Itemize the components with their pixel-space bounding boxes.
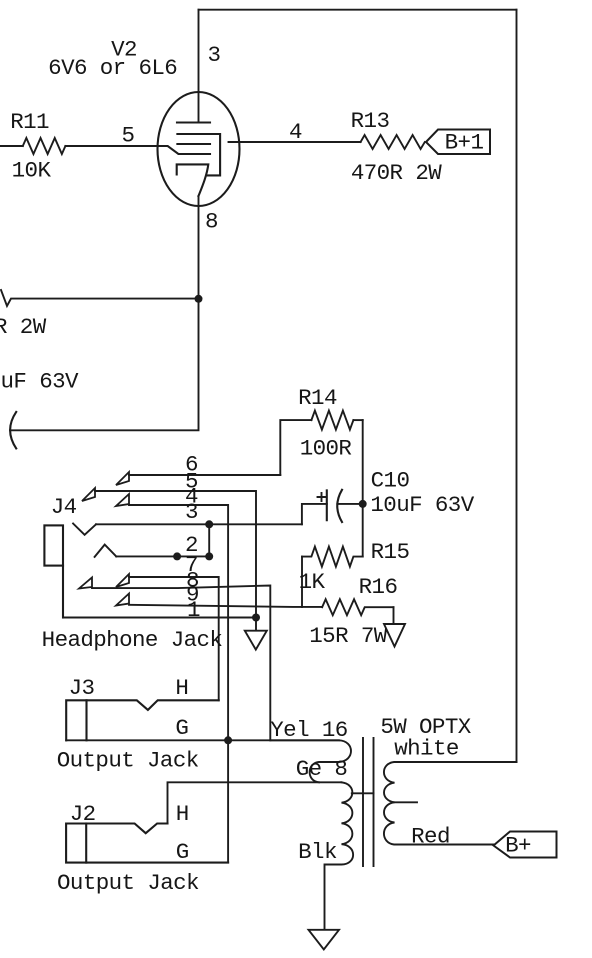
wire pin4 to R13 [229,141,361,143]
svg-text:R16: R16 [359,574,398,600]
capacitor C10 plus sign [318,493,326,501]
wire line3 riser to C10 [302,504,327,524]
svg-text:R14: R14 [298,385,337,411]
resistor R16 [322,599,393,615]
svg-text:J2: J2 [70,801,96,827]
wire ground bus and Yel 16 lead [66,739,339,741]
wire J2 tip riser to OPTX Ge 8 tap [168,782,342,823]
svg-text:3: 3 [185,499,198,525]
transformer OPTX secondary [384,762,517,845]
svg-text:Output Jack: Output Jack [57,748,199,774]
svg-text:B+1: B+1 [445,130,484,156]
node line2 left [173,552,181,560]
tube V2 plate [177,121,210,123]
wire right rail down to OPTX white lead [516,10,518,762]
wire contact6 riser to R14 [280,420,311,475]
contact 5 [82,488,95,501]
ground OPTX [309,930,340,950]
svg-text:H: H [176,801,189,827]
svg-text:G: G [175,715,188,741]
capacitor C10 curved plate [337,490,342,522]
capacitor C10 plus plate [326,490,328,520]
svg-text:C10: C10 [371,468,410,494]
svg-text:J4: J4 [51,494,77,520]
svg-text:470R 2W: 470R 2W [351,160,442,186]
resistor R14 [311,411,353,430]
wire contact 6 [129,474,280,476]
svg-text:15R 7W: 15R 7W [309,623,388,649]
transformer OPTX core [363,738,374,866]
node ground junction [252,614,260,622]
svg-text:R 2W: R 2W [0,314,47,340]
svg-text:Blk: Blk [298,839,337,865]
wire right rail R14-C10-R15 [362,420,364,556]
node cathode junction [195,295,203,303]
ground J4 [245,631,267,650]
svg-text:R15: R15 [371,539,410,565]
wire contact 5 to ground [95,491,256,631]
wire line9 to R16 [129,605,322,607]
svg-text:1: 1 [187,597,200,623]
connector J4 body [44,525,63,565]
contact 7 [116,574,129,587]
resistor R11 [23,138,66,154]
node line3 tap [205,520,213,528]
svg-text:3: 3 [208,42,221,68]
svg-text:white: white [394,736,459,762]
wire top rail [199,9,517,11]
tube V2 grid line [177,143,210,145]
transformer OPTX secondary tap stub [395,801,418,803]
svg-text:5: 5 [122,122,135,148]
svg-text:8: 8 [205,209,218,235]
svg-text:Yel 16: Yel 16 [270,717,348,743]
svg-text:Red: Red [411,824,450,850]
wire contact 8 to ground bus [92,586,270,741]
svg-text:1K: 1K [299,569,326,595]
svg-text:10uF 63V: 10uF 63V [370,492,474,518]
wire line 3 to C10 [96,523,302,525]
svg-text:100R: 100R [300,436,352,462]
tube V2 screen grid [177,134,220,175]
svg-text:uF 63V: uF 63V [1,369,80,395]
contact 6 [116,472,129,485]
svg-text:J3: J3 [69,675,95,701]
svg-text:6V6 or 6L6: 6V6 or 6L6 [48,55,177,81]
node C10 output [359,500,367,508]
wire sleeve line 1 [63,617,256,619]
wire line3 to line2 tap [208,524,210,556]
net tag B+ [494,832,557,858]
svg-text:R13: R13 [351,108,390,134]
tube V2 cathode [177,164,209,196]
node line2 right [205,552,213,560]
connector J2 [66,824,228,863]
clipped capacitor plate at left edge [10,412,16,449]
svg-text:Headphone Jack: Headphone Jack [42,627,223,653]
svg-text:R11: R11 [10,109,49,135]
contact 8 [79,578,92,589]
wire contact 7 to J3 tip [129,577,219,700]
contact 2 tip [95,545,117,557]
wire R14 right to rail [353,419,362,421]
svg-text:10K: 10K [12,158,52,184]
resistor R13 [361,135,425,149]
tube V2 envelope [158,92,240,206]
wire left edge to R11 [0,145,23,147]
svg-text:H: H [175,675,188,701]
net tag B+1 [426,130,490,155]
contact 3 ring [73,524,96,535]
contact 9 [116,594,129,606]
connector J3 [66,700,219,740]
clipped resistor end at left edge [1,290,199,306]
transformer OPTX primary-core stub [352,792,374,794]
contact 4 [116,494,129,506]
wire contact 4 to output jack grounds [129,505,228,863]
svg-text:B+: B+ [505,833,531,859]
ground R16 [393,607,395,624]
wire plate pin3 riser [198,10,200,123]
svg-text:G: G [176,839,189,865]
transformer OPTX primary bumps [325,782,354,930]
node J3 ground [224,736,232,744]
transformer OPTX primary top loop [270,740,351,782]
wire R11 to pin5 [65,145,158,147]
svg-text:Ge 8: Ge 8 [296,756,348,782]
wire R15 left rail [301,557,303,607]
wire cathode stem [10,196,199,430]
wire C10 to rail [337,503,362,505]
resistor R15 [302,547,363,567]
tube V2 control grid with pin5 jog [157,146,210,154]
wire line 2 [116,555,209,557]
svg-text:Output Jack: Output Jack [57,870,199,896]
